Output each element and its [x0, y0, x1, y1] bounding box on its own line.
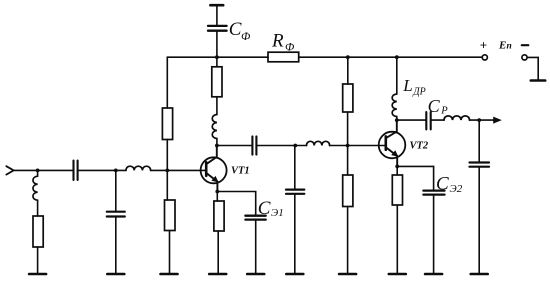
ground (CЭ1): [247, 273, 264, 276]
svg-text:E: E: [498, 39, 506, 51]
wire collector out: [397, 119, 426, 121]
svg-text:ДР: ДР: [412, 87, 425, 98]
node E (rail/CФ junction): [215, 55, 219, 59]
node F: [346, 55, 350, 59]
wire input segment 2: [78, 169, 126, 171]
capacitor C3 (coupling): [252, 136, 256, 154]
node K (output junction): [477, 118, 481, 122]
node J (VT2 collector): [395, 118, 399, 122]
label minus: [522, 44, 529, 46]
node L (VT1 emitter): [215, 190, 219, 194]
ground (VT1 emitter): [209, 273, 226, 276]
wire to VT2 base: [330, 145, 385, 147]
svg-text:R: R: [271, 31, 284, 52]
label CР: [428, 96, 449, 117]
wire: [431, 119, 444, 121]
resistor R7 (VT1 emitter): [214, 192, 224, 275]
wire input segment 1: [14, 169, 74, 171]
wire: [216, 57, 218, 67]
wire: [347, 146, 349, 176]
resistor RФ: [268, 52, 299, 62]
capacitor CР (output coupling): [426, 112, 430, 129]
terminal + (Eп positive): [482, 55, 487, 60]
resistor R3 (lower bias VT1): [165, 200, 176, 231]
wire to CЭ1: [217, 192, 255, 216]
svg-text:п: п: [507, 41, 512, 51]
wire: [166, 140, 168, 171]
wire collector line: [217, 145, 252, 147]
svg-text:Э2: Э2: [450, 183, 463, 195]
node G: [395, 55, 399, 59]
ground (output): [471, 273, 488, 276]
wire: [478, 167, 480, 274]
inductor L3 (collector load coil): [212, 97, 217, 146]
node I (VT2 bias node): [346, 144, 350, 148]
resistor R6 (lower bias VT2): [343, 175, 353, 207]
wire output: [470, 119, 496, 121]
wire: [347, 112, 349, 146]
node M (VT2 emitter): [395, 165, 399, 169]
inductor L5 (output coil): [444, 116, 470, 120]
wire: [256, 145, 306, 147]
terminal − (Eп negative): [522, 55, 527, 60]
svg-text:VT1: VT1: [231, 166, 250, 177]
ground (input branch): [29, 273, 46, 276]
svg-text:VT2: VT2: [410, 141, 429, 152]
node A (input junction): [36, 169, 40, 173]
wire: [166, 170, 168, 200]
node D (VT1 collector): [215, 144, 219, 148]
wire output shunt down: [478, 120, 480, 162]
ground (VT2 bias): [339, 273, 356, 276]
ground (CЭ2): [425, 273, 442, 276]
transistor VT2: [379, 120, 406, 166]
ground (VT2 emitter): [389, 273, 406, 276]
wire to VT1 base: [151, 169, 207, 171]
capacitor CФ: [208, 5, 227, 57]
node H: [293, 144, 297, 148]
resistor R8 (VT2 emitter): [392, 166, 402, 274]
label Eп: [498, 39, 512, 51]
svg-text:+: +: [480, 37, 487, 52]
transistor VT1: [201, 146, 227, 192]
capacitor CЭ1: [245, 216, 265, 274]
resistor R4 (collector feed): [212, 67, 222, 97]
inductor L1 (input shunt coil): [33, 170, 38, 216]
capacitor C4 (interstage shunt): [286, 190, 304, 194]
output arrow: [493, 117, 502, 124]
svg-text:Ф: Ф: [241, 31, 250, 43]
svg-text:C: C: [436, 174, 449, 195]
svg-text:Р: Р: [440, 106, 448, 117]
label RФ: [271, 31, 294, 54]
svg-text:Э1: Э1: [271, 207, 284, 219]
label CЭ1: [258, 198, 284, 219]
ground (interstage shunt): [286, 273, 303, 276]
wire: [294, 194, 296, 274]
label CФ: [229, 19, 250, 43]
inductor L4 (interstage coil): [307, 141, 330, 145]
node B: [114, 169, 118, 173]
wire: [115, 217, 117, 275]
inductor L2 (series input coil): [126, 166, 151, 170]
node C (VT1 base bias node): [165, 169, 169, 173]
wire: [37, 247, 39, 274]
wire: [347, 207, 349, 275]
capacitor C2 (shunt): [107, 189, 125, 216]
svg-text:Ф: Ф: [285, 42, 294, 54]
wire negative terminal: [527, 57, 538, 80]
svg-text:C: C: [258, 198, 271, 219]
wire: [169, 231, 171, 275]
wire rail corner down: [166, 57, 168, 108]
ground (shunt 2): [107, 273, 124, 276]
resistor R2 (upper bias VT1): [162, 108, 172, 140]
wire from rail: [347, 57, 349, 84]
label CЭ2: [436, 174, 463, 195]
inductor LДР (choke): [392, 57, 397, 120]
input terminal chevron: [6, 166, 13, 174]
wire top rail right: [299, 56, 483, 58]
wire shunt down: [294, 146, 296, 190]
wire top rail left: [167, 56, 268, 58]
ground (bias branch): [161, 273, 178, 276]
wire shunt 2: [115, 170, 117, 189]
svg-text:L: L: [402, 76, 412, 95]
capacitor CЭ2: [423, 191, 444, 274]
resistor R5 (upper bias VT2): [343, 84, 353, 112]
ground bar (negative terminal): [531, 79, 545, 82]
svg-text:C: C: [428, 96, 441, 116]
capacitor C5 (output shunt): [470, 163, 490, 167]
svg-text:C: C: [229, 19, 242, 40]
resistor R1 (input shunt): [33, 216, 43, 247]
wire to CЭ2: [397, 166, 433, 190]
label LДР: [402, 76, 425, 97]
capacitor C1 (series input): [74, 161, 78, 181]
